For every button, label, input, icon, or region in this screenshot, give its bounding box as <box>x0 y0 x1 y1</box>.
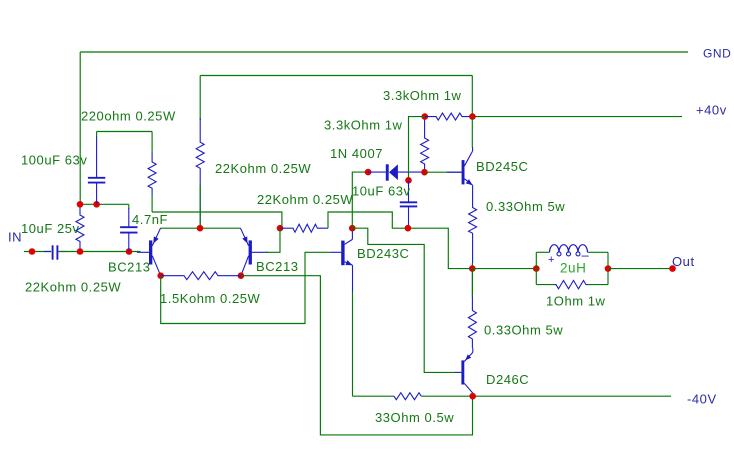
diode 1N 4007 <box>368 171 386 173</box>
transistor Q2 BC213 (mirrored) <box>252 251 268 253</box>
wire emitter rail Q1-Q2 <box>160 227 240 229</box>
wire 220ohm to Q2 base node <box>152 212 282 228</box>
resistor 220ohm 0.25W <box>148 152 156 195</box>
wire second top rail <box>200 75 472 77</box>
junction 100uF bottom <box>93 201 100 208</box>
svg-text:BD245C: BD245C <box>476 159 528 174</box>
resistor 22Kohm 0.25W (drive) <box>280 224 328 232</box>
capacitor 100uF 63v <box>96 136 98 178</box>
svg-text:BC213: BC213 <box>256 259 299 274</box>
wire 220ohm bottom <box>151 195 153 212</box>
svg-text:0.33Ohm 5w: 0.33Ohm 5w <box>484 323 563 338</box>
svg-text:4.7nF: 4.7nF <box>132 212 168 227</box>
resistor 0.33Ohm 5w (upper) <box>469 185 477 263</box>
svg-text:BD243C: BD243C <box>357 246 409 261</box>
svg-text:+: + <box>548 254 554 266</box>
wire IN lead <box>24 251 51 253</box>
resistor 33Ohm 0.5w <box>394 393 421 400</box>
junction D246C collector node <box>469 393 476 400</box>
svg-text:1Ohm 1w: 1Ohm 1w <box>546 294 606 309</box>
capacitor 10uF 25v (input coupling) <box>52 245 54 259</box>
wire +40v to BD245C collector <box>471 117 473 148</box>
wire to Out <box>608 268 673 270</box>
transistor Q4 BD245C <box>425 171 462 173</box>
wire bias staircase to D246C base <box>352 228 455 372</box>
wire +40v rail <box>472 116 682 118</box>
wire 100uF top stub <box>96 132 98 138</box>
junction +40v node <box>469 113 476 120</box>
wire feedback Q1 collector to BD243C base <box>161 252 331 323</box>
transistor Q3 BD243C <box>331 251 341 253</box>
svg-text:1.5Kohm 0.25W: 1.5Kohm 0.25W <box>160 291 261 306</box>
wire tail resistor to emitter rail <box>199 185 201 228</box>
wire Q2 collector to -40V rail <box>241 276 473 435</box>
wire 220ohm top lead <box>151 132 153 153</box>
svg-text:10uF 63v: 10uF 63v <box>352 184 411 199</box>
junction diode anode node <box>421 169 428 176</box>
resistor 3.3kOhm 1w (horizontal) <box>425 113 473 120</box>
svg-text:22Kohm 0.25W: 22Kohm 0.25W <box>215 161 311 176</box>
svg-text:3.3kOhm 1w: 3.3kOhm 1w <box>324 118 403 133</box>
svg-text:-40V: -40V <box>687 392 717 407</box>
junction input bias node <box>77 248 84 255</box>
junction emitter rail center <box>197 225 204 232</box>
wire drive resistor staircase to output node <box>328 212 471 269</box>
svg-text:D246C: D246C <box>486 372 529 387</box>
wire output node to inductor box <box>472 268 536 270</box>
svg-text:33Ohm 0.5w: 33Ohm 0.5w <box>375 410 454 425</box>
junction Out terminal <box>669 265 676 272</box>
svg-text:220ohm 0.25W: 220ohm 0.25W <box>81 109 176 124</box>
junction inductor box left <box>533 265 540 272</box>
junction Q2 base node <box>277 225 284 232</box>
junction Q1 base node <box>126 248 133 255</box>
svg-text:Out: Out <box>672 254 695 269</box>
junction diode cathode node <box>365 169 372 176</box>
junction 3.3k top <box>422 113 429 120</box>
wire Q2 base to node <box>266 228 280 252</box>
wire bias node horizontal <box>80 203 129 205</box>
resistor 22Kohm 0.25W (input shunt) <box>76 208 84 249</box>
resistor 1Ohm 1w <box>555 280 589 288</box>
wire drop to +40v node <box>471 76 473 117</box>
wire GND rail <box>80 51 688 53</box>
junction BD243C collector node <box>349 225 356 232</box>
inductor 2uH with parallel resistor 1Ohm 1w <box>535 252 537 284</box>
junction input node <box>29 248 36 255</box>
svg-text:3.3kOhm 1w: 3.3kOhm 1w <box>383 88 462 103</box>
svg-text:GND: GND <box>703 47 731 61</box>
svg-text:22Kohm 0.25W: 22Kohm 0.25W <box>25 280 121 295</box>
wire left vertical from GND rail <box>79 52 81 204</box>
wire 3.3k top to 10uF cap <box>409 117 425 181</box>
svg-text:22Kohm 0.25W: 22Kohm 0.25W <box>257 192 353 207</box>
resistor 1.5Kohm 0.25W <box>161 272 241 280</box>
transistor Q5 D246C <box>455 371 461 373</box>
resistor 0.33Ohm 5w (lower) <box>468 269 476 348</box>
wire collector node up to diode <box>352 172 368 228</box>
wire BD243C emitter down to -40V rail <box>352 291 354 396</box>
wire drop to R 22Kohm upper <box>199 76 201 121</box>
junction 10uF top <box>405 177 412 184</box>
wire -40V rail right <box>421 395 671 397</box>
junction inductor box right <box>605 265 612 272</box>
junction Q2 collector <box>238 272 245 279</box>
svg-text:10uF 25v: 10uF 25v <box>21 221 80 236</box>
wire 4.7nF top lead <box>128 204 130 209</box>
junction 10uF bottom <box>405 225 412 232</box>
capacitor 10uF 63v <box>408 180 410 202</box>
svg-text:+40v: +40v <box>696 103 727 118</box>
resistor 3.3kOhm 1w (vertical) <box>421 119 429 169</box>
transistor Q1 BC213 <box>137 251 149 253</box>
svg-text:IN: IN <box>8 230 22 245</box>
junction Q1 collector <box>157 272 164 279</box>
svg-text:BC213: BC213 <box>108 260 151 275</box>
svg-text:2uH: 2uH <box>560 261 586 276</box>
svg-text:1N 4007: 1N 4007 <box>330 146 383 161</box>
wire input node to Q1 base <box>59 251 141 253</box>
resistor 22Kohm 0.25W (tail) <box>196 118 204 228</box>
svg-text:100uF 63v: 100uF 63v <box>21 153 87 168</box>
svg-text:0.33Ohm 5w: 0.33Ohm 5w <box>486 199 565 214</box>
wire upper 0.33 to output node <box>471 263 473 269</box>
wire 100uF top to 220ohm top <box>97 131 153 133</box>
junction bias left <box>77 201 84 208</box>
junction output node <box>469 265 476 272</box>
capacitor 4.7nF <box>128 208 130 227</box>
wire -40V rail left <box>353 395 395 397</box>
